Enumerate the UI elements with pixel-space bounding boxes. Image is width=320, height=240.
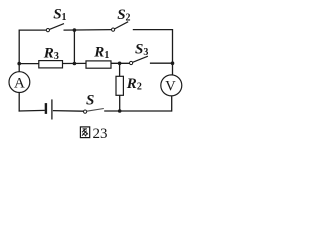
node: middle row / right vertical (171, 61, 175, 65)
switch S3 (130, 56, 148, 64)
wire left vertical lower (ammeter to bottom corner) (18, 92, 20, 111)
svg-text:A: A (14, 75, 25, 91)
wire left vertical upper (corner to ammeter) (18, 30, 20, 72)
wire top left (corner to S1) (19, 29, 46, 31)
resistor R1 (86, 61, 111, 68)
wire top right (S2 to top-right corner) (133, 29, 173, 31)
ammeter A (9, 72, 30, 93)
caption: character 图 drawn as vector (80, 127, 89, 138)
svg-text:S: S (86, 92, 94, 108)
wire middle row R3 to R1 (63, 62, 87, 64)
wire battery to switch S (53, 110, 84, 113)
voltmeter V (161, 75, 182, 96)
wire center vertical (top node to middle node) (73, 30, 75, 63)
node: middle row / center branch (73, 62, 77, 66)
wire R2 top lead (119, 63, 121, 76)
node: middle row / R2 top (118, 62, 122, 66)
wire bottom left (corner to battery) (19, 109, 45, 112)
svg-text:V: V (165, 78, 176, 94)
svg-text:23: 23 (93, 126, 108, 142)
resistor R2 (116, 76, 123, 95)
wire right vertical upper (corner to voltmeter) (172, 29, 174, 75)
battery (46, 99, 52, 119)
node: bottom wire / R2 bottom (118, 109, 122, 113)
wire right vertical lower (voltmeter to bottom corner) (171, 96, 173, 112)
node: top wire / center branch (73, 28, 77, 32)
switch S1 (46, 24, 64, 32)
wire top middle (S1 to S2) (64, 29, 112, 32)
switch S (bottom) (84, 109, 104, 114)
wire middle row R1 to S3 (111, 62, 130, 64)
resistor R3 (39, 61, 63, 68)
wire switch S to bottom-right corner (104, 110, 172, 112)
switch S2 (112, 22, 129, 32)
wire middle row S3 to right vertical (150, 62, 173, 64)
wire middle row left (node to R3) (19, 63, 39, 65)
wire R2 bottom lead (119, 95, 121, 111)
node: left vertical / middle row (17, 62, 21, 66)
